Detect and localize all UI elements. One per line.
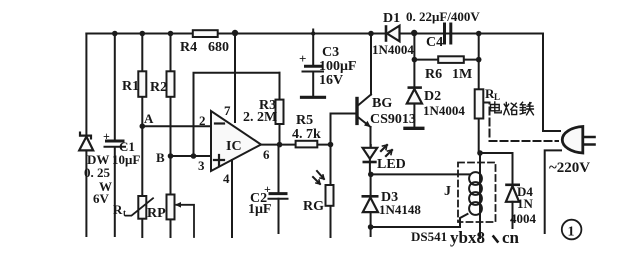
wire: R2/RP rail xyxy=(170,34,172,238)
junction relay top xyxy=(477,150,483,156)
wire: output pin6 row xyxy=(261,144,331,146)
resistor RL (heater) xyxy=(475,89,484,118)
label 680 xyxy=(208,40,229,55)
label 1N of D4 xyxy=(517,196,534,211)
svg-text:1: 1 xyxy=(568,225,575,240)
svg-text:A: A xyxy=(144,111,154,126)
label IC xyxy=(226,139,242,154)
wire: C1 branch xyxy=(114,34,116,237)
label 1N4148 xyxy=(379,202,421,217)
label C2 xyxy=(250,191,267,206)
svg-text:1N: 1N xyxy=(517,196,534,211)
svg-text:1μF: 1μF xyxy=(248,202,272,217)
label 6V xyxy=(93,191,110,206)
resistor R3 xyxy=(276,73,284,145)
svg-text:~220V: ~220V xyxy=(549,160,590,176)
label pin 3 xyxy=(198,158,205,173)
label R3 xyxy=(259,98,276,113)
label 4.7k xyxy=(292,127,321,142)
svg-text:1M: 1M xyxy=(452,67,472,82)
resistor R1 xyxy=(138,71,146,97)
label 0.22uF/400V xyxy=(406,9,480,24)
relay coil J xyxy=(469,153,482,238)
resistor R2 xyxy=(167,71,175,97)
caption text DS541 (cropped) xyxy=(411,229,447,244)
svg-text:cn: cn xyxy=(502,228,520,247)
label 1N4004 of D2 xyxy=(423,103,465,118)
svg-text:t: t xyxy=(123,208,126,218)
label 2.2M xyxy=(243,110,277,125)
label 4004 of D4 xyxy=(510,211,537,226)
wire: R1/Rt rail xyxy=(141,34,143,238)
diode D4 xyxy=(506,185,519,228)
resistor R6 xyxy=(414,56,478,63)
svg-text:4. 7k: 4. 7k xyxy=(292,127,321,142)
label soldering iron (dian lao tie) xyxy=(491,102,534,115)
wire: node B row to pin 3 xyxy=(171,155,212,157)
svg-text:16V: 16V xyxy=(319,73,343,88)
label R1 xyxy=(122,79,139,94)
label ~220V xyxy=(549,160,590,176)
svg-text:L: L xyxy=(494,92,500,102)
svg-text:ybx8: ybx8 xyxy=(450,228,485,247)
svg-text:4004: 4004 xyxy=(510,211,537,226)
wire: bottom link D3 to relay xyxy=(371,214,468,227)
svg-text:C3: C3 xyxy=(322,45,339,60)
svg-text:J: J xyxy=(444,184,451,199)
label 16V xyxy=(319,73,343,88)
label + of C1 xyxy=(103,129,110,143)
svg-text:+: + xyxy=(103,129,110,143)
label 10uF xyxy=(112,152,140,167)
junction dots on top rail xyxy=(112,30,482,37)
svg-text:2. 2M: 2. 2M xyxy=(243,110,277,125)
label 1M xyxy=(452,67,472,82)
watermark comma xyxy=(494,237,498,242)
capacitor C4 xyxy=(414,24,479,43)
svg-text:DS541: DS541 xyxy=(411,229,447,244)
wire: node A row to pin 2 xyxy=(142,125,211,127)
label W xyxy=(99,179,112,194)
resistor R4 xyxy=(193,30,218,37)
svg-text:CS9013: CS9013 xyxy=(370,112,416,127)
label R4 xyxy=(180,40,197,55)
thermistor Rt xyxy=(126,196,154,219)
label D2 xyxy=(424,89,441,104)
label R5 xyxy=(296,113,313,128)
capacitor C3 xyxy=(302,30,325,98)
svg-text:R6: R6 xyxy=(425,67,442,82)
zener diode DW xyxy=(79,133,93,151)
photoresistor RG xyxy=(313,171,334,206)
svg-text:RP: RP xyxy=(147,206,166,221)
svg-text:2: 2 xyxy=(199,113,206,128)
label RP xyxy=(147,206,166,221)
label D1 xyxy=(383,11,400,26)
junction LED/D3 xyxy=(368,172,374,178)
LED xyxy=(363,145,392,174)
watermark ybx8.cn xyxy=(450,228,485,247)
svg-text:R1: R1 xyxy=(122,79,139,94)
label RG xyxy=(303,199,324,214)
label DW xyxy=(87,152,109,167)
svg-text:D2: D2 xyxy=(424,89,441,104)
wire: right rail below plug xyxy=(545,150,561,233)
label RL xyxy=(485,86,500,102)
circled figure number 1 xyxy=(562,220,582,240)
wire: RL branch from top rail xyxy=(478,34,480,154)
relay J dashed box xyxy=(458,163,496,223)
svg-text:6V: 6V xyxy=(93,191,110,206)
capacitor C1 xyxy=(105,141,126,147)
wire: top supply rail xyxy=(86,33,543,35)
svg-text:1N4004: 1N4004 xyxy=(423,103,465,118)
dashed linkage from RL to mains xyxy=(484,103,559,142)
svg-text:R4: R4 xyxy=(180,40,197,55)
svg-text:R: R xyxy=(113,202,123,217)
svg-text:0. 25: 0. 25 xyxy=(84,165,111,180)
svg-text:LED: LED xyxy=(377,157,406,172)
potentiometer RP xyxy=(167,195,195,238)
label pin 2 xyxy=(199,113,206,128)
label J xyxy=(444,184,451,199)
diode D3 xyxy=(363,174,378,236)
diode D1 xyxy=(377,26,410,42)
label Rt xyxy=(113,202,126,218)
label 1N4004 of D1 xyxy=(372,42,414,57)
node A xyxy=(140,123,146,129)
label C1 xyxy=(119,139,135,154)
capacitor C2 xyxy=(269,145,288,233)
svg-text:IC: IC xyxy=(226,139,242,154)
svg-text:3: 3 xyxy=(198,158,205,173)
junction D3 bottom xyxy=(368,224,374,230)
label A xyxy=(144,111,154,126)
junction dots on R6 row xyxy=(412,57,482,63)
junction R5 right xyxy=(328,142,334,148)
label pin 4 xyxy=(223,171,230,186)
wire: relay node to D4 xyxy=(480,153,513,185)
label B xyxy=(156,150,165,165)
resistor R5 xyxy=(296,141,318,148)
svg-text:1N4148: 1N4148 xyxy=(379,202,421,217)
label pin 6 xyxy=(263,147,270,162)
svg-text:0. 22μF/400V: 0. 22μF/400V xyxy=(406,9,480,24)
svg-text:6: 6 xyxy=(263,147,270,162)
node B xyxy=(168,153,174,159)
label C4 xyxy=(426,35,443,50)
label + of C3 xyxy=(299,51,306,66)
watermark cn xyxy=(502,228,520,247)
svg-text:4: 4 xyxy=(223,171,230,186)
label 100uF xyxy=(319,59,357,74)
svg-text:R5: R5 xyxy=(296,113,313,128)
mains plug xyxy=(562,127,594,154)
wire: pin 7 to top rail xyxy=(234,34,236,123)
label 1uF xyxy=(248,202,272,217)
label CS9013 xyxy=(370,112,416,127)
wire: RG / base branch xyxy=(331,114,356,238)
label D3 xyxy=(381,190,398,205)
wire: feedback link from pin3 row up and over to R3 top xyxy=(194,73,280,156)
svg-text:7: 7 xyxy=(224,103,231,118)
label R2 xyxy=(150,80,167,95)
label LED xyxy=(377,157,406,172)
svg-text:BG: BG xyxy=(372,96,392,111)
svg-text:RG: RG xyxy=(303,199,324,214)
svg-text:10μF: 10μF xyxy=(112,152,140,167)
label pin 7 xyxy=(224,103,231,118)
wire: left rail down to DW xyxy=(85,34,87,237)
wire: right rail from top to plug xyxy=(543,34,560,132)
label R6 xyxy=(425,67,442,82)
wire: pin 4 down xyxy=(231,160,233,237)
svg-text:680: 680 xyxy=(208,40,229,55)
svg-text:+: + xyxy=(299,51,306,66)
svg-text:B: B xyxy=(156,150,165,165)
diode D2 xyxy=(405,34,423,129)
junction R3/C2 on output row xyxy=(277,142,283,148)
junction on pin3 row xyxy=(191,153,197,159)
label D4 xyxy=(517,184,533,199)
op-amp IC xyxy=(211,111,261,171)
label 0.25 xyxy=(84,165,111,180)
wire: emitter column junction to relay coil xyxy=(371,173,470,175)
label C3 xyxy=(322,45,339,60)
svg-text:1N4004: 1N4004 xyxy=(372,42,414,57)
svg-text:R2: R2 xyxy=(150,80,167,95)
label + of C2 xyxy=(264,182,271,196)
transistor BG (CS9013) xyxy=(331,34,372,149)
svg-text:100μF: 100μF xyxy=(319,59,357,74)
svg-text:D1: D1 xyxy=(383,11,400,26)
svg-text:C4: C4 xyxy=(426,35,443,50)
label BG xyxy=(372,96,392,111)
